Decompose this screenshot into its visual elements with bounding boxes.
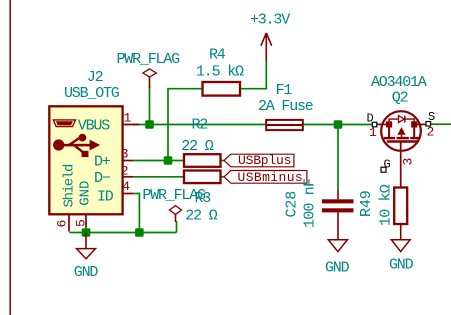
J2 pin 6 Shield <box>55 164 78 232</box>
resistor R49 <box>358 184 407 240</box>
svg-text:1.5 kΩ: 1.5 kΩ <box>196 64 244 81</box>
global label USBplus <box>224 153 294 168</box>
svg-text:S: S <box>428 110 435 124</box>
svg-text:1: 1 <box>369 125 377 140</box>
svg-text:1: 1 <box>124 111 132 126</box>
sheet border <box>9 0 11 315</box>
J2 usb trident icon <box>53 134 100 157</box>
svg-text:4: 4 <box>122 179 130 194</box>
Q2 channel segments <box>384 137 395 139</box>
svg-text:D+: D+ <box>94 154 111 171</box>
svg-text:2A Fuse: 2A Fuse <box>258 98 314 115</box>
Q2 body diode <box>389 119 398 122</box>
junction node D+/R4 <box>164 156 173 165</box>
J2 pin 4 ID <box>97 179 133 205</box>
wire D- row <box>133 176 184 178</box>
svg-text:VBUS: VBUS <box>78 117 110 134</box>
resistor R4 <box>196 47 244 96</box>
ground below C28 <box>325 240 350 277</box>
svg-text:3: 3 <box>121 147 128 162</box>
svg-text:3: 3 <box>401 159 416 166</box>
capacitor C28 <box>284 179 354 240</box>
svg-text:PWR_FLAG: PWR_FLAG <box>142 187 206 204</box>
wire Q2 source to edge <box>431 123 451 125</box>
resistor R3 <box>184 171 221 225</box>
power flag PWR_FLAG top <box>117 51 181 88</box>
wire R4 left to D+ <box>168 89 203 161</box>
wire R3 to USBminus <box>221 176 226 178</box>
svg-text:USB_OTG: USB_OTG <box>64 85 120 102</box>
power flag PWR_FLAG bottom <box>142 187 206 222</box>
junction node fuse/C28 <box>334 120 343 129</box>
Q2 pin G marker <box>381 167 386 172</box>
Q2 pin D marker <box>372 122 377 127</box>
svg-text:6: 6 <box>55 221 70 228</box>
junction node pin5/GND <box>82 228 91 237</box>
ground below J2 <box>74 233 99 282</box>
wire R4 right to +3.3V <box>240 61 266 89</box>
svg-text:22 Ω: 22 Ω <box>185 208 217 225</box>
svg-text:USBminus: USBminus <box>238 170 304 185</box>
wire R2 to USBplus <box>221 160 226 162</box>
J2 pin 5 GND <box>74 181 94 227</box>
svg-text:Shield: Shield <box>62 164 78 208</box>
svg-text:USBplus: USBplus <box>238 153 291 168</box>
wire pin5 stub <box>85 226 87 233</box>
svg-text:AO3401A: AO3401A <box>371 74 427 91</box>
wire PWR_FLAG1 stub <box>149 87 151 125</box>
J2 pin 2 D- <box>94 163 133 186</box>
wire ID pin down <box>133 194 139 233</box>
J2 pin 1 VBUS <box>78 111 139 135</box>
svg-text:R4: R4 <box>209 47 226 64</box>
wire D+ row <box>133 160 184 162</box>
svg-text:GND: GND <box>325 260 350 277</box>
Q2 gate bar <box>387 140 418 142</box>
svg-text:J2: J2 <box>87 69 103 86</box>
wire fuse to Q2 drain <box>303 124 373 126</box>
wire PWR_FLAG2 stub <box>176 221 178 233</box>
svg-text:ID: ID <box>97 189 114 206</box>
svg-text:5: 5 <box>74 220 89 227</box>
svg-text:10 kΩ: 10 kΩ <box>378 184 395 226</box>
transistor Q2 AO3401A <box>367 74 436 188</box>
svg-text:R2: R2 <box>192 117 208 134</box>
svg-text:F1: F1 <box>276 82 293 99</box>
Q2 pin S marker <box>426 122 431 127</box>
svg-text:GND: GND <box>389 257 414 274</box>
ground below R49 <box>389 240 414 274</box>
svg-text:C28: C28 <box>284 191 301 218</box>
global label USBminus <box>224 170 307 185</box>
svg-text:2: 2 <box>121 163 128 178</box>
wire VBUS from pin1 to fuse <box>133 124 266 126</box>
svg-text:GND: GND <box>74 264 99 281</box>
svg-text:22 Ω: 22 Ω <box>181 138 213 155</box>
J2 pin 3 D+ <box>94 147 133 171</box>
Q2 substrate arrow <box>397 127 405 135</box>
Q2 circle <box>381 111 421 151</box>
svg-text:GND: GND <box>78 181 94 206</box>
svg-text:D−: D− <box>94 170 111 187</box>
fuse F1 <box>258 82 314 130</box>
svg-text:R49: R49 <box>358 190 375 217</box>
svg-text:Q2: Q2 <box>392 90 408 107</box>
svg-text:100 nF: 100 nF <box>302 179 319 228</box>
resistor R2 <box>181 117 220 167</box>
Q2 gate pin down to R49 <box>400 142 402 188</box>
svg-text:2: 2 <box>427 125 434 140</box>
connector J2 USB_OTG body <box>49 106 122 214</box>
wire fuse junction to C28 <box>337 125 339 190</box>
Q2 drain rail <box>377 123 389 125</box>
svg-text:+3.3V: +3.3V <box>250 11 290 28</box>
junction node ID/bottom wire <box>135 228 144 237</box>
power +3.3V <box>250 11 290 61</box>
svg-text:D: D <box>367 112 374 126</box>
wire bottom gnd run <box>69 232 176 234</box>
junction node VBUS/PWR_FLAG <box>145 120 154 129</box>
J2 usb plug icon <box>53 120 75 127</box>
svg-text:PWR_FLAG: PWR_FLAG <box>117 51 181 68</box>
svg-text:G: G <box>384 157 391 171</box>
